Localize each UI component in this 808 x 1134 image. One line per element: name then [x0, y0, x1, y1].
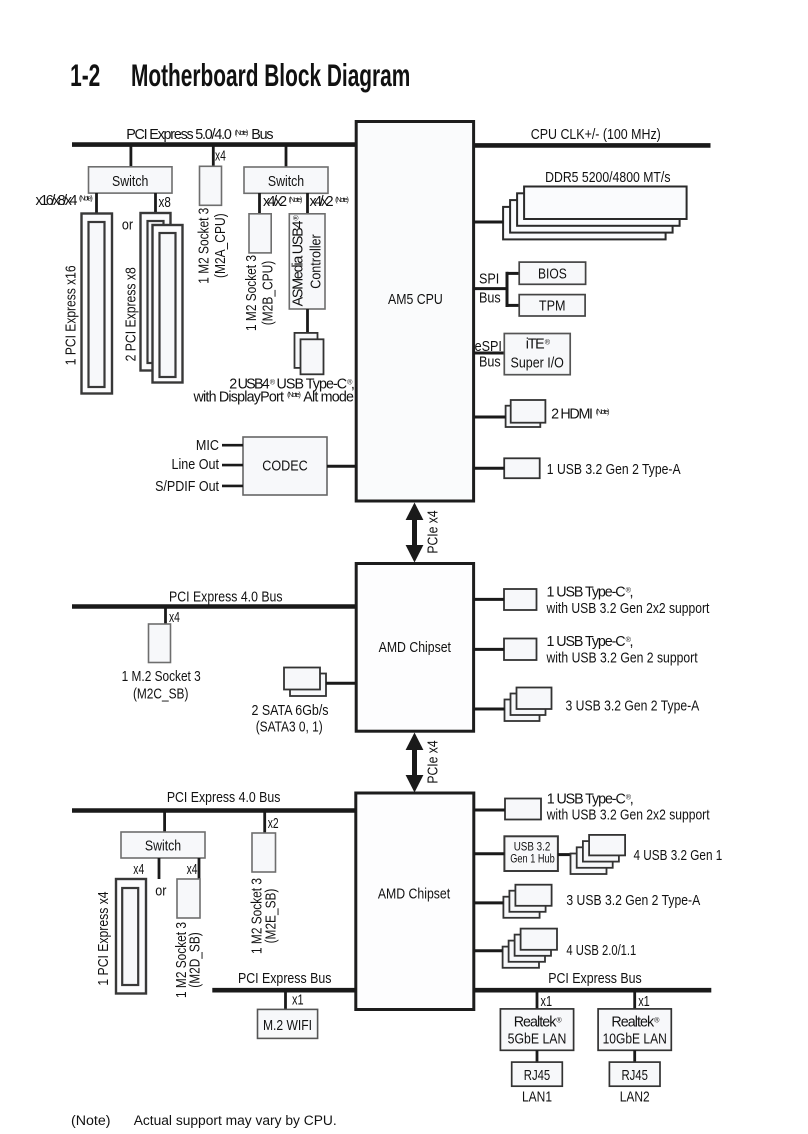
svg-text:PCI Express Bus: PCI Express Bus	[238, 971, 332, 987]
svg-text:PCIe x4: PCIe x4	[426, 510, 442, 553]
svg-text:(M2D_SB): (M2D_SB)	[187, 932, 203, 988]
svg-text:x1: x1	[638, 994, 650, 1010]
svg-text:(M2A_CPU): (M2A_CPU)	[213, 213, 229, 278]
svg-text:x2: x2	[268, 816, 279, 832]
svg-text:x4: x4	[187, 862, 198, 878]
svg-text:Super I/O: Super I/O	[511, 356, 564, 372]
svg-text:4 USB 2.0/1.1: 4 USB 2.0/1.1	[566, 943, 636, 959]
svg-text:(Note): (Note)	[71, 1113, 111, 1129]
svg-text:or: or	[122, 218, 133, 234]
svg-text:1 M2 Socket 3: 1 M2 Socket 3	[197, 208, 213, 284]
svg-text:Realtek®: Realtek®	[611, 1015, 660, 1031]
svg-text:PCI Express 4.0 Bus: PCI Express 4.0 Bus	[169, 590, 283, 606]
svg-text:BIOS: BIOS	[538, 266, 567, 282]
svg-text:LAN1: LAN1	[522, 1090, 552, 1106]
svg-text:Motherboard Block Diagram: Motherboard Block Diagram	[131, 57, 410, 93]
svg-text:Switch: Switch	[145, 839, 181, 855]
svg-text:ASMedia USB4®: ASMedia USB4®	[291, 215, 307, 307]
svg-text:1 USB 3.2 Gen 2 Type-A: 1 USB 3.2 Gen 2 Type-A	[547, 462, 681, 478]
svg-text:with USB 3.2 Gen 2 support: with USB 3.2 Gen 2 support	[546, 651, 698, 667]
svg-text:Switch: Switch	[112, 174, 148, 190]
svg-text:AMD Chipset: AMD Chipset	[378, 887, 450, 903]
svg-text:5GbE LAN: 5GbE LAN	[508, 1032, 567, 1048]
svg-text:Switch: Switch	[268, 174, 304, 190]
svg-text:Actual support may vary by CPU: Actual support may vary by CPU.	[134, 1113, 337, 1129]
svg-text:TPM: TPM	[539, 299, 566, 315]
svg-text:(M2B_CPU): (M2B_CPU)	[261, 261, 277, 326]
svg-text:RJ45: RJ45	[621, 1068, 648, 1084]
svg-text:with USB 3.2 Gen 2x2 support: with USB 3.2 Gen 2x2 support	[546, 601, 710, 617]
svg-text:LAN2: LAN2	[620, 1090, 650, 1106]
svg-text:x1: x1	[541, 994, 553, 1010]
svg-text:RJ45: RJ45	[524, 1068, 551, 1084]
svg-text:S/PDIF Out: S/PDIF Out	[155, 479, 219, 495]
svg-text:PCI Express Bus: PCI Express Bus	[548, 971, 642, 987]
svg-text:Gen 1 Hub: Gen 1 Hub	[510, 852, 555, 866]
svg-text:3 USB 3.2 Gen 2 Type-A: 3 USB 3.2 Gen 2 Type-A	[566, 699, 700, 715]
svg-text:SPI: SPI	[479, 271, 499, 287]
svg-text:4 USB 3.2 Gen 1: 4 USB 3.2 Gen 1	[634, 848, 723, 864]
svg-text:1 USB Type-C®,: 1 USB Type-C®,	[547, 585, 634, 601]
svg-text:2 SATA 6Gb/s: 2 SATA 6Gb/s	[251, 703, 328, 719]
svg-text:Bus: Bus	[479, 290, 501, 306]
svg-text:(SATA3 0, 1): (SATA3 0, 1)	[256, 720, 323, 736]
svg-text:with USB 3.2 Gen 2x2 support: with USB 3.2 Gen 2x2 support	[546, 808, 710, 824]
svg-text:2 PCI Express x8: 2 PCI Express x8	[123, 267, 139, 361]
svg-text:x4: x4	[215, 148, 226, 164]
svg-text:1 M.2 Socket 3: 1 M.2 Socket 3	[122, 669, 201, 685]
svg-text:1 M2 Socket 3: 1 M2 Socket 3	[244, 255, 260, 331]
svg-text:PCI Express 4.0 Bus: PCI Express 4.0 Bus	[167, 790, 281, 806]
svg-text:AM5 CPU: AM5 CPU	[388, 292, 443, 308]
svg-text:CODEC: CODEC	[262, 458, 308, 474]
svg-text:(M2C_SB): (M2C_SB)	[133, 687, 189, 703]
svg-text:3 USB 3.2 Gen 2 Type-A: 3 USB 3.2 Gen 2 Type-A	[566, 893, 700, 909]
svg-text:Line Out: Line Out	[172, 457, 220, 473]
svg-text:M.2 WIFI: M.2 WIFI	[263, 1018, 312, 1034]
svg-text:x1: x1	[292, 993, 304, 1009]
svg-text:with DisplayPort (Note) Alt mo: with DisplayPort (Note) Alt mode	[193, 390, 355, 406]
svg-text:Bus: Bus	[479, 355, 501, 371]
svg-text:PCI Express 5.0/4.0 (Note) Bus: PCI Express 5.0/4.0 (Note) Bus	[126, 127, 273, 143]
svg-text:1 PCI Express x4: 1 PCI Express x4	[96, 891, 112, 985]
svg-text:10GbE LAN: 10GbE LAN	[603, 1032, 667, 1048]
svg-text:1 PCI Express x16: 1 PCI Express x16	[64, 265, 80, 365]
svg-text:1 USB Type-C®,: 1 USB Type-C®,	[547, 634, 634, 650]
svg-text:Realtek®: Realtek®	[514, 1015, 563, 1031]
svg-text:MIC: MIC	[196, 438, 219, 454]
svg-text:1-2: 1-2	[70, 57, 100, 93]
svg-text:x4: x4	[133, 862, 144, 878]
svg-text:1 USB Type-C®,: 1 USB Type-C®,	[547, 792, 634, 808]
svg-text:CPU CLK+/- (100 MHz): CPU CLK+/- (100 MHz)	[531, 127, 661, 143]
svg-text:(M2E_SB): (M2E_SB)	[263, 889, 279, 944]
svg-text:Controller: Controller	[308, 234, 324, 289]
svg-text:AMD Chipset: AMD Chipset	[379, 640, 451, 656]
svg-text:x8: x8	[159, 195, 171, 211]
svg-text:or: or	[155, 884, 166, 900]
svg-text:DDR5 5200/4800 MT/s: DDR5 5200/4800 MT/s	[545, 170, 670, 186]
svg-text:PCIe x4: PCIe x4	[426, 740, 442, 783]
